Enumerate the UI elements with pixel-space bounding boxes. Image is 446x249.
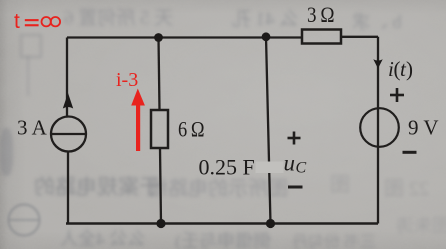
svg-text:t: t (14, 10, 20, 33)
svg-text:i-3: i-3 (116, 69, 138, 91)
